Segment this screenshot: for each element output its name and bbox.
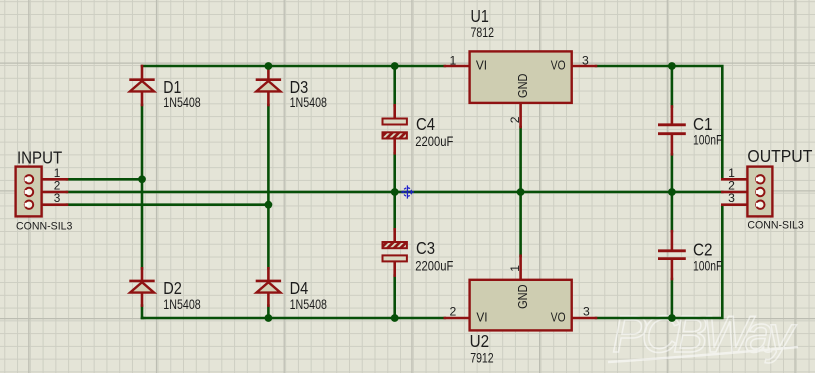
wire U2 VO to output corner <box>596 206 722 318</box>
wire C1 top to rail <box>671 66 674 107</box>
wire C2 bottom to bottom rail <box>671 279 674 318</box>
svg-text:U1: U1 <box>471 6 489 26</box>
capacitor C4 <box>383 119 407 139</box>
output pin 1 stub <box>722 178 756 181</box>
svg-text:VI: VI <box>476 59 487 73</box>
output pin circle 3 <box>756 201 764 209</box>
C2 bottom stub <box>671 260 674 279</box>
svg-text:OUTPUT: OUTPUT <box>747 146 812 166</box>
connector J-OUTPUT body <box>747 167 772 217</box>
junction C1 top rail <box>668 62 676 70</box>
svg-text:INPUT: INPUT <box>17 148 63 168</box>
D2 cathode stub <box>141 268 144 279</box>
input pin 2 stub <box>33 191 67 194</box>
svg-text:7812: 7812 <box>471 25 495 40</box>
op-amp U2 body <box>470 280 572 331</box>
svg-text:100nF: 100nF <box>693 132 722 147</box>
svg-text:C2: C2 <box>693 240 713 260</box>
wire D4 anode to bottom rail <box>267 306 270 318</box>
output pin 3 stub <box>722 203 756 206</box>
wire C3 top to mid rail <box>393 192 396 229</box>
wire bottom rail D2 to U2 VI <box>142 317 445 320</box>
wire C4 bottom to mid rail <box>393 153 396 192</box>
origin marker <box>401 185 414 198</box>
input pin circle 2 <box>25 188 33 196</box>
svg-text:3: 3 <box>54 191 61 205</box>
wire C3 bottom to bottom rail <box>393 276 396 318</box>
junction C1-C2 mid rail <box>668 188 676 196</box>
C4 bottom stub <box>393 139 396 154</box>
svg-text:CONN-SIL3: CONN-SIL3 <box>16 220 72 232</box>
input pin 1 stub <box>33 178 67 181</box>
C1 bottom stub <box>671 135 674 154</box>
wire C1 bottom to mid rail <box>671 154 674 192</box>
svg-text:D2: D2 <box>163 278 182 298</box>
wire U1 GND to mid rail <box>519 127 522 192</box>
svg-text:D4: D4 <box>290 278 309 298</box>
wire vertical D1-D2 branch <box>141 105 144 268</box>
junction C4-C3 mid rail <box>391 188 399 196</box>
svg-text:C3: C3 <box>416 238 435 258</box>
C4 top stub <box>393 105 396 118</box>
svg-text:D3: D3 <box>290 77 309 97</box>
svg-text:1: 1 <box>508 265 522 272</box>
C1 top stub <box>671 107 674 124</box>
svg-text:2: 2 <box>508 116 522 123</box>
svg-text:3: 3 <box>728 191 735 205</box>
svg-text:U2: U2 <box>470 331 490 351</box>
svg-text:C1: C1 <box>693 114 713 134</box>
input pin 3 stub <box>33 203 67 206</box>
svg-text:D1: D1 <box>163 77 181 97</box>
junction node A input pin1 <box>138 175 146 183</box>
svg-text:1N5408: 1N5408 <box>290 95 328 110</box>
U1 pin 3 stub <box>572 65 596 68</box>
U2 pin 3 stub <box>572 317 596 320</box>
svg-text:GND: GND <box>516 284 530 309</box>
input pin circle 3 <box>25 201 33 209</box>
C2 top stub <box>671 231 674 249</box>
output pin 2 stub <box>722 191 756 194</box>
wire U1 VO to output corner <box>596 66 722 178</box>
svg-text:CONN-SIL3: CONN-SIL3 <box>747 220 803 232</box>
svg-text:2200uF: 2200uF <box>415 259 453 274</box>
connector J-INPUT body <box>16 167 42 217</box>
junction D4 bottom rail <box>265 314 273 322</box>
svg-text:3: 3 <box>583 305 590 319</box>
capacitor C3 <box>383 242 407 261</box>
D2 anode stub <box>141 294 144 306</box>
D1 cathode stub <box>141 66 144 79</box>
diode D4 <box>256 281 281 293</box>
wire mid GND rail <box>67 191 722 194</box>
U2 pin 1 stub <box>519 256 522 280</box>
U2 pin 2 stub <box>445 317 470 320</box>
junction C2 bottom rail <box>668 314 676 322</box>
svg-text:7912: 7912 <box>470 350 494 365</box>
wire input pin3 to node B <box>67 203 268 206</box>
diode D2 <box>129 281 154 293</box>
capacitor C2 <box>658 251 686 259</box>
svg-text:VI: VI <box>476 311 487 325</box>
capacitor C1 <box>658 125 686 134</box>
wire C4 top to rail <box>393 66 396 105</box>
junction D3 top rail <box>265 62 273 70</box>
U1 pin 2 stub <box>519 103 522 127</box>
svg-text:3: 3 <box>582 54 589 68</box>
D3 cathode stub <box>267 66 270 79</box>
svg-text:VO: VO <box>551 311 566 325</box>
wire C2 top to mid rail <box>671 192 674 231</box>
svg-text:2: 2 <box>450 305 457 319</box>
D4 anode stub <box>267 294 270 306</box>
wire input pin1 to node A <box>67 178 142 181</box>
junction node B input pin3 <box>265 201 273 209</box>
svg-text:GND: GND <box>516 74 530 99</box>
wire D2 anode to bottom rail <box>142 306 143 318</box>
svg-text:VO: VO <box>551 59 566 73</box>
diode D3 <box>256 80 281 92</box>
junction C4 top rail <box>391 62 399 70</box>
diode D1 <box>129 80 154 92</box>
U1 pin 1 stub <box>445 65 470 68</box>
svg-text:1N5408: 1N5408 <box>163 297 201 312</box>
svg-text:100nF: 100nF <box>693 258 722 273</box>
junction U1-U2 GND mid rail <box>517 188 525 196</box>
junction C3 bottom rail <box>391 314 399 322</box>
wire U2 GND to mid rail <box>519 192 522 256</box>
svg-text:C4: C4 <box>416 114 435 134</box>
D4 cathode stub <box>267 268 270 279</box>
svg-text:2200uF: 2200uF <box>415 134 453 149</box>
C3 bottom stub <box>393 262 396 276</box>
C3 top stub <box>393 229 396 242</box>
output pin circle 1 <box>756 175 764 183</box>
D3 anode stub <box>267 92 270 106</box>
svg-text:1N5408: 1N5408 <box>163 95 201 110</box>
D1 anode stub <box>141 92 144 106</box>
output pin circle 2 <box>756 188 764 196</box>
wire vertical D3-D4 branch <box>267 105 270 268</box>
op-amp U1 body <box>470 51 572 103</box>
watermark PCBWay <box>608 306 798 364</box>
svg-text:1N5408: 1N5408 <box>290 297 328 312</box>
input pin circle 1 <box>25 175 33 183</box>
wire top rail D1 to U1 VI <box>142 65 445 68</box>
svg-text:1: 1 <box>450 54 457 68</box>
